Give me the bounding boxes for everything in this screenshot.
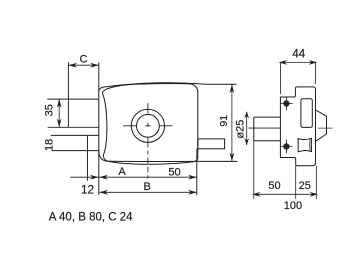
- cylinder body left (three lines): [254, 117, 281, 141]
- svg-text:12: 12: [81, 184, 94, 197]
- arrowheads bottom 50/100: [252, 192, 261, 197]
- svg-text:50: 50: [168, 167, 180, 179]
- extension line inner plate right, down: [196, 149, 198, 196]
- svg-text:ø25: ø25: [234, 120, 246, 139]
- svg-text:50: 50: [268, 180, 280, 192]
- extension right edge down: [315, 166, 317, 199]
- arrowheads 35: [57, 99, 62, 108]
- svg-text:44: 44: [292, 48, 305, 60]
- dim line 44: [280, 61, 315, 63]
- screw bottom: [280, 140, 293, 153]
- extension cylinder-left down: [253, 141, 255, 199]
- side view case outline: [280, 87, 315, 166]
- outer case bottom edge + extension: [99, 152, 238, 162]
- arrowheads C: [68, 63, 77, 68]
- dim line 35: [58, 99, 60, 127]
- thumb-turn spool: [298, 138, 312, 152]
- arrowheads 91: [230, 84, 235, 93]
- upper stub top edge / 35 extension top: [47, 98, 99, 100]
- extension line C left: [67, 62, 69, 127]
- extension 44 left: [279, 63, 281, 94]
- dashed centerline below circle: [147, 151, 149, 179]
- dim line C: [68, 64, 98, 66]
- arrowheads phi25: [244, 111, 249, 118]
- dim line phi25: [246, 112, 248, 145]
- latch bolt right (front view): [198, 139, 225, 149]
- arrowheads 44: [279, 60, 288, 65]
- lower stub bottom edge / 18 line bottom: [52, 150, 99, 152]
- svg-text:B: B: [144, 181, 151, 193]
- cylinder inner circle: [137, 114, 160, 137]
- lower stub top edge / 18 line top: [51, 134, 99, 136]
- screw top: [280, 97, 293, 110]
- extension 44 right: [315, 63, 317, 84]
- svg-text:35: 35: [44, 104, 56, 116]
- dim line B: [99, 191, 197, 193]
- cylinder outer circle: [131, 109, 164, 142]
- knob axis tick: [318, 127, 333, 129]
- dim line 91: [231, 84, 233, 161]
- extension line body left long: [98, 62, 100, 195]
- svg-text:91: 91: [218, 115, 230, 127]
- extension mid (50/25 divider): [295, 166, 297, 199]
- arrowhead 12 (points right): [90, 175, 99, 180]
- dim line 12: [70, 176, 99, 178]
- bottom dim line 50/25/100: [254, 193, 316, 195]
- outside knob (right bulge): [316, 110, 327, 141]
- svg-text:A: A: [118, 166, 126, 178]
- svg-text:18: 18: [44, 139, 56, 151]
- lock body outer case (front view): [99, 83, 237, 152]
- keyhole slot plate: [301, 99, 312, 128]
- svg-text:25: 25: [299, 180, 311, 192]
- centerline cross of cylinder: [123, 103, 172, 178]
- arrowheads A/50: [99, 175, 108, 180]
- svg-text:A 40, B 80, C 24: A 40, B 80, C 24: [49, 212, 133, 224]
- extension line 12: [87, 135, 89, 180]
- upper stub bottom edge / 35 extension bottom: [48, 126, 99, 128]
- arrowheads B: [99, 190, 108, 195]
- svg-text:C: C: [80, 53, 88, 65]
- inner cover plate (front view): [102, 84, 197, 165]
- dim line A / 50: [99, 176, 197, 178]
- svg-text:100: 100: [284, 200, 302, 212]
